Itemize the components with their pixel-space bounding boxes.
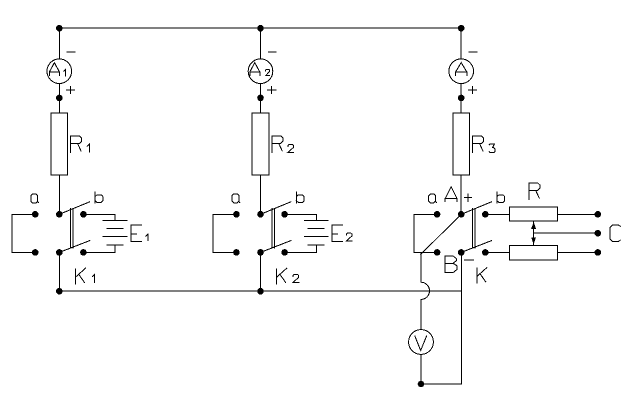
label R3 [473, 136, 495, 153]
switch K2 contact dot b-lower [281, 249, 288, 256]
wire resistor R2 to switch [260, 175, 262, 214]
label R1 [71, 136, 90, 152]
wire resistor R1 to switch [58, 175, 60, 214]
ammeter A1 [47, 59, 72, 84]
wire switch b-lower to lower element [485, 251, 509, 253]
switch K contact dot b-upper [482, 211, 489, 218]
label minus polarity A2 [268, 51, 276, 53]
switch K1 bracket a-contacts [12, 214, 35, 252]
wire resistor R3 to switch [460, 175, 462, 214]
switch K contact dot pole-lower [458, 249, 465, 256]
switch K upper blade [461, 202, 491, 215]
battery E1 [103, 220, 127, 244]
label plus polarity A3 [468, 87, 476, 94]
label minus polarity A1 [67, 51, 75, 53]
ammeter A3 [449, 59, 474, 84]
node top junction 3 [458, 25, 465, 32]
label E1 [131, 225, 148, 241]
label contact a of switch K2 [232, 194, 240, 203]
wire ammeter A3 to resistor R3 [460, 84, 462, 113]
switch K1 upper blade [59, 202, 89, 215]
wire hop to voltmeter V [420, 299, 422, 329]
battery E2 [304, 220, 328, 244]
switch K contact dot a-upper [434, 211, 441, 218]
label plus polarity A2 [268, 87, 276, 94]
label contact b of switch K [497, 192, 505, 203]
node below ammeter A2 [257, 95, 264, 102]
node top junction 2 [257, 25, 264, 32]
label switch K1 [76, 268, 95, 284]
node terminal lower [595, 249, 602, 256]
wire top bus [59, 27, 461, 29]
switch K bracket a-contacts [414, 214, 437, 252]
switch K2 bracket a-contacts [213, 214, 236, 252]
label contact b of switch K2 [296, 192, 304, 203]
switch K1 contact dot pole-upper [56, 211, 63, 218]
switch K coupling bar [473, 209, 476, 249]
label node A [445, 187, 457, 202]
voltmeter V [409, 330, 434, 355]
wire top bus to ammeter A1 [58, 28, 60, 59]
switch K long blade to a-side [421, 214, 461, 254]
switch K contact dot b-lower [482, 249, 489, 256]
label plus polarity at A [464, 194, 471, 201]
label C [610, 225, 620, 242]
label E2 [332, 225, 352, 241]
label contact a of switch K1 [31, 194, 39, 203]
node terminal upper [595, 211, 602, 218]
switch K1 contact dot a-lower [32, 249, 39, 256]
switch K2 coupling bar [272, 209, 275, 249]
label contact a of switch K [429, 194, 437, 203]
switch K2 upper blade [261, 202, 291, 215]
switch K2 contact dot pole-upper [257, 211, 264, 218]
node bottom of voltmeter [418, 381, 425, 388]
switch K2 contact dot a-lower [233, 249, 240, 256]
switch K2 contact dot pole-lower [257, 249, 264, 256]
wire switch K1 pole to bottom bus [58, 252, 60, 291]
resistor R2 [252, 113, 269, 175]
wire switch K pole-lower down right side [460, 252, 462, 384]
node below ammeter A1 [56, 95, 63, 102]
wire a-bracket down to crossover hop [420, 252, 422, 282]
wire top bus to ammeter A3 [460, 28, 462, 59]
node top junction 1 [56, 25, 63, 32]
switch K contact dot a-lower [434, 249, 441, 256]
label node B [445, 256, 457, 272]
wire bottom bus [59, 290, 461, 292]
wire switch K2 pole to bottom bus [260, 252, 262, 291]
wire ammeter A2 to resistor R2 [260, 84, 262, 113]
wire switch b-upper to battery E1 [83, 214, 115, 220]
node terminal middle [595, 230, 602, 237]
wire voltmeter V to bottom node [420, 354, 422, 384]
switch K1 coupling bar [71, 209, 74, 249]
node bottom junction K2 [257, 288, 264, 295]
label minus polarity at B [465, 259, 474, 261]
wire bottom return [421, 383, 461, 385]
switch K lower blade [461, 241, 491, 253]
switch K1 contact dot a-upper [32, 211, 39, 218]
switch K1 lower blade [59, 241, 89, 253]
wire switch b-upper to battery E2 [285, 214, 317, 220]
wire switch b-upper to rheostat R [485, 213, 509, 215]
label minus polarity A3 [469, 51, 477, 53]
ammeter A2 [248, 59, 273, 84]
wire wiper to terminal C [534, 232, 598, 234]
label switch K2 [277, 268, 299, 284]
label switch K [477, 268, 487, 284]
resistor R1 [51, 113, 68, 175]
label R2 [272, 136, 294, 153]
switch K1 contact dot b-lower [80, 249, 87, 256]
wire crossover hop over bottom bus [421, 282, 430, 299]
switch K2 contact dot a-upper [233, 211, 240, 218]
switch K1 contact dot pole-lower [56, 249, 63, 256]
rheostat R lower element [510, 245, 558, 260]
wire battery E2 to switch b-lower [285, 245, 317, 253]
wire rheostat R to terminal [558, 213, 598, 215]
label plus polarity A1 [66, 87, 74, 94]
label contact b of switch K1 [95, 192, 103, 203]
switch K2 lower blade [261, 241, 291, 253]
wire ammeter A1 to resistor R1 [58, 84, 60, 113]
rheostat R upper element [510, 207, 558, 221]
switch K1 contact dot b-upper [80, 211, 87, 218]
resistor R3 [453, 113, 470, 175]
wiper arrow [531, 221, 536, 245]
wire battery E1 to switch b-lower [83, 245, 115, 253]
wire top bus to ammeter A2 [260, 28, 262, 59]
switch K contact dot pole-upper [458, 211, 465, 218]
node below ammeter A3 [458, 95, 465, 102]
label R rheostat [529, 183, 540, 199]
node bottom junction K1 [56, 288, 63, 295]
switch K2 contact dot b-upper [281, 211, 288, 218]
wire lower element to terminal [558, 251, 598, 253]
